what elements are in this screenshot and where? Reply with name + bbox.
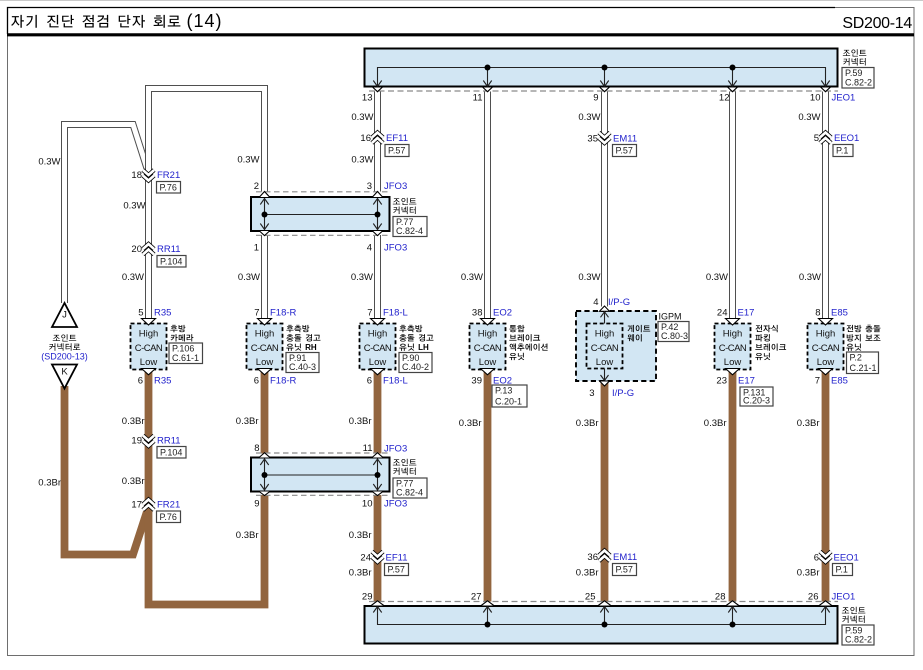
svg-text:FR21: FR21 <box>157 170 180 181</box>
EO2 description 통합 브레이크 액추에이션 유닛 <box>509 325 547 360</box>
svg-text:K: K <box>61 367 68 378</box>
svg-text:P.2: P.2 <box>850 353 862 363</box>
svg-text:0.3W: 0.3W <box>123 201 145 212</box>
svg-text:7: 7 <box>254 308 259 319</box>
svg-text:6: 6 <box>814 553 819 564</box>
svg-text:C.82-4: C.82-4 <box>396 226 423 236</box>
svg-text:0.3W: 0.3W <box>122 272 144 283</box>
F18-L ref box P.90 C.40-2 <box>399 353 432 373</box>
junction triangle J (to joint connector SD200-13) <box>52 303 77 327</box>
svg-text:0.3Br: 0.3Br <box>349 568 372 579</box>
svg-text:0.3Br: 0.3Br <box>122 416 145 427</box>
svg-text:(SD200-13): (SD200-13) <box>41 352 88 362</box>
svg-text:25: 25 <box>585 592 596 603</box>
svg-text:E85: E85 <box>831 376 848 387</box>
svg-text:IGPM: IGPM <box>659 312 682 322</box>
E85 description 전방 충돌 방지 보조 유닛 <box>846 325 880 351</box>
bottom bar label 조인트 커넥터 <box>842 607 865 623</box>
svg-text:R35: R35 <box>154 376 171 387</box>
svg-text:J: J <box>62 310 67 321</box>
svg-text:Low: Low <box>479 357 497 368</box>
svg-text:6: 6 <box>138 376 143 387</box>
title text 자기 진단 점검 단자 회로 (14) <box>11 11 222 31</box>
svg-text:RR11: RR11 <box>157 436 181 447</box>
svg-text:E17: E17 <box>738 376 755 387</box>
JF03 bottom dashed boundaries <box>256 452 390 454</box>
svg-text:20: 20 <box>131 244 142 255</box>
top bar ref box P.59 C.82-2 <box>842 68 874 89</box>
inline connector 17 FR21 P.76 <box>143 500 154 511</box>
svg-text:7: 7 <box>367 308 372 319</box>
connector I/P-G inside IGPM <box>587 324 623 369</box>
svg-text:C.20-1: C.20-1 <box>495 397 522 407</box>
svg-text:C-CAN: C-CAN <box>812 343 840 354</box>
svg-text:C-CAN: C-CAN <box>474 343 502 354</box>
svg-text:C.20-3: C.20-3 <box>743 396 770 406</box>
svg-text:5: 5 <box>814 133 819 144</box>
I/P-G wire arrows into IGPM <box>600 306 610 311</box>
svg-text:EF11: EF11 <box>386 133 408 144</box>
svg-text:9: 9 <box>254 499 259 510</box>
connector E17 (electronic parking brake unit) <box>715 324 751 370</box>
IGPM gateway module box <box>576 311 656 381</box>
svg-text:C.82-4: C.82-4 <box>396 488 423 498</box>
svg-text:24: 24 <box>717 308 728 319</box>
svg-text:P.104: P.104 <box>160 256 182 266</box>
svg-text:27: 27 <box>471 592 482 603</box>
svg-text:P.57: P.57 <box>388 565 405 575</box>
svg-text:29: 29 <box>362 592 373 603</box>
IGPM description 게이트 웨이 <box>628 325 651 342</box>
svg-text:0.3Br: 0.3Br <box>797 418 820 429</box>
svg-text:19: 19 <box>131 436 142 447</box>
svg-text:C.21-1: C.21-1 <box>850 363 877 373</box>
svg-text:P.57: P.57 <box>388 146 405 156</box>
svg-text:F18-L: F18-L <box>383 376 408 387</box>
svg-text:EEO1: EEO1 <box>834 133 859 144</box>
svg-text:0.3W: 0.3W <box>237 155 259 166</box>
svg-text:Low: Low <box>817 357 835 368</box>
inline connector 16 EF11 P.57 <box>372 133 383 144</box>
svg-text:0.3Br: 0.3Br <box>797 568 820 579</box>
svg-text:3: 3 <box>589 388 594 399</box>
svg-text:F18-R: F18-R <box>270 308 297 319</box>
svg-text:F18-R: F18-R <box>270 376 297 387</box>
svg-text:P.76: P.76 <box>160 512 177 522</box>
svg-text:0.3Br: 0.3Br <box>38 478 61 489</box>
svg-text:0.3Br: 0.3Br <box>349 530 372 541</box>
JF03 bottom wire arrows x=377.5 <box>372 453 384 458</box>
wire end arrow at bottom bar x=487.5 <box>481 601 495 606</box>
svg-text:C-CAN: C-CAN <box>251 343 279 354</box>
svg-text:0.3W: 0.3W <box>38 157 60 168</box>
svg-text:JFO3: JFO3 <box>384 444 407 455</box>
joint connector bar (top, P.59 C.82-2) <box>365 49 838 87</box>
wire: EO2 column c4 <box>484 92 491 319</box>
svg-text:High: High <box>255 329 275 340</box>
F18-L wire end arrows <box>371 319 385 326</box>
svg-text:0.3W: 0.3W <box>798 112 820 123</box>
svg-text:(14): (14) <box>187 11 223 31</box>
svg-text:High: High <box>723 329 743 340</box>
svg-text:0.3Br: 0.3Br <box>236 530 259 541</box>
svg-text:8: 8 <box>815 308 820 319</box>
svg-text:P.106: P.106 <box>172 344 194 354</box>
svg-text:0.3W: 0.3W <box>461 272 483 283</box>
F18-R wire end arrows <box>258 319 272 326</box>
svg-text:Low: Low <box>256 357 274 368</box>
wire: outer loop FR21 top to JF03 pin2 <box>149 89 265 192</box>
title box top/left black edges <box>8 8 836 35</box>
svg-text:F18-L: F18-L <box>383 308 408 319</box>
connector EO2 (integrated brake actuation unit) <box>470 324 506 370</box>
svg-text:Low: Low <box>596 357 614 368</box>
svg-text:0.3Br: 0.3Br <box>576 418 599 429</box>
svg-text:C.40-2: C.40-2 <box>402 362 429 372</box>
connector R35 (rear camera) <box>131 324 167 370</box>
connector E85 (forward collision avoidance assist unit) <box>808 324 844 370</box>
svg-text:JEO1: JEO1 <box>832 93 856 104</box>
svg-text:E17: E17 <box>738 308 755 319</box>
svg-text:18: 18 <box>131 170 142 181</box>
svg-text:2: 2 <box>254 181 259 192</box>
inline connector 36 EM11 P.57 <box>599 551 610 562</box>
svg-text:I/P-G: I/P-G <box>612 388 634 399</box>
svg-text:10: 10 <box>810 93 821 104</box>
svg-text:3: 3 <box>367 181 372 192</box>
svg-text:C-CAN: C-CAN <box>135 343 163 354</box>
svg-text:High: High <box>816 329 836 340</box>
bottom bar connector dashed boundary <box>369 601 838 603</box>
svg-text:EEO1: EEO1 <box>834 553 859 564</box>
top bar connector dashed boundary <box>369 90 838 92</box>
joint connector JF03 (top, P.77 C.82-4) <box>251 197 390 231</box>
brown wire: F18-R to JF03 pin8 <box>261 369 269 454</box>
svg-text:24: 24 <box>360 553 371 564</box>
brown wire: F18-L to JF03 pin11 <box>374 369 382 454</box>
thick divider line <box>7 33 914 36</box>
svg-text:P.1: P.1 <box>836 565 848 575</box>
svg-text:35: 35 <box>587 134 598 145</box>
wire end arrow at top bar x=825.5 <box>821 87 831 92</box>
svg-text:C.61-1: C.61-1 <box>172 353 199 363</box>
svg-text:P.57: P.57 <box>616 146 633 156</box>
svg-text:P.59: P.59 <box>845 68 862 78</box>
bottom bar ref box P.59 C.82-2 <box>842 625 874 645</box>
svg-text:0.3W: 0.3W <box>706 272 728 283</box>
JF03 top wire arrows x=377.5 <box>372 192 383 198</box>
wire end arrow at top bar x=604.5 <box>600 87 610 92</box>
EO2 ref box P.13 C.20-1 <box>492 385 527 407</box>
svg-text:R35: R35 <box>154 308 171 319</box>
inline connector 18 FR21 P.76 <box>143 170 154 181</box>
svg-text:38: 38 <box>472 308 483 319</box>
svg-text:12: 12 <box>719 93 730 104</box>
svg-text:0.3Br: 0.3Br <box>349 416 372 427</box>
brown wire: I/P-G to bottom bar pin25 <box>601 381 609 602</box>
brown wire: EO2 to bottom bar pin27 <box>484 369 492 602</box>
svg-text:11: 11 <box>363 443 373 454</box>
wire: E85 column c7 <box>822 92 829 319</box>
svg-text:5: 5 <box>138 308 143 319</box>
wire end arrow at top bar x=732.5 <box>728 87 738 92</box>
R35 ref box P.106 C.61-1 <box>169 343 203 364</box>
JF03 top dashed boundaries <box>256 191 390 193</box>
svg-text:RR11: RR11 <box>157 244 181 255</box>
svg-text:23: 23 <box>716 376 727 387</box>
wire end arrow at bottom bar x=377.5 <box>371 601 385 606</box>
svg-text:EO2: EO2 <box>493 308 512 319</box>
IGPM ref box P.42 C.80-3 <box>658 322 689 342</box>
E17 wire end arrows <box>726 319 740 326</box>
svg-text:26: 26 <box>808 592 819 603</box>
inline connector 35 EM11 P.57 <box>599 133 610 144</box>
wire gauge labels 0.3W / 0.3Br <box>38 112 821 579</box>
svg-text:C.80-3: C.80-3 <box>661 331 688 341</box>
wire end arrow at bottom bar x=732.5 <box>726 601 740 606</box>
svg-text:JEO1: JEO1 <box>832 592 856 603</box>
inline connector 5 EE01 P.1 <box>820 133 831 144</box>
inline connector 24 EF11 P.57 <box>372 552 383 563</box>
svg-text:EM11: EM11 <box>613 134 637 145</box>
svg-text:28: 28 <box>715 592 726 603</box>
svg-text:C-CAN: C-CAN <box>591 343 619 354</box>
svg-text:SD200-14: SD200-14 <box>842 15 912 32</box>
wire end arrow at top bar x=377.5 <box>373 87 383 92</box>
R35 description 후방 카메라 <box>170 325 193 342</box>
svg-text:0.3Br: 0.3Br <box>122 476 145 487</box>
F18-R ref box P.91 C.40-3 <box>286 353 319 373</box>
svg-text:I/P-G: I/P-G <box>608 297 630 308</box>
inline connector 20 RR11 P.104 <box>143 244 154 255</box>
svg-text:0.3Br: 0.3Br <box>236 416 259 427</box>
wire: E17 column c6 <box>729 92 736 319</box>
svg-text:High: High <box>478 329 498 340</box>
E17 ref box P.131 C.20-3 <box>740 387 773 406</box>
svg-text:Low: Low <box>369 357 387 368</box>
svg-text:LH: LH <box>418 343 429 352</box>
F18-L description 후측방 충돌 경고 유닛 LH <box>399 325 433 352</box>
joint connector JF03 (bottom, P.77 C.82-4) <box>251 458 390 492</box>
svg-text:RH: RH <box>305 343 317 352</box>
E85 ref box P.2 C.21-1 <box>847 352 879 374</box>
R35 wire end arrows <box>142 319 156 326</box>
svg-text:C.40-3: C.40-3 <box>289 362 316 372</box>
wire end arrow at top bar x=487.5 <box>483 87 493 92</box>
brown wire: F18-L JF03 pin10 to bottom bar pin29 <box>374 495 382 602</box>
svg-text:13: 13 <box>362 93 373 104</box>
svg-text:C.82-2: C.82-2 <box>845 635 872 645</box>
svg-text:0.3Br: 0.3Br <box>704 418 727 429</box>
svg-text:6: 6 <box>367 376 372 387</box>
JF03 bottom wire arrows x=264.5 <box>259 453 271 458</box>
svg-text:6: 6 <box>254 376 259 387</box>
svg-text:P.76: P.76 <box>160 182 177 192</box>
brown wire: E85 to bottom bar pin26 <box>822 369 830 602</box>
svg-text:Low: Low <box>724 357 742 368</box>
svg-text:EF11: EF11 <box>386 553 408 564</box>
svg-text:EM11: EM11 <box>613 552 637 563</box>
svg-text:4: 4 <box>593 297 598 308</box>
svg-text:0.3W: 0.3W <box>578 112 600 123</box>
svg-text:8: 8 <box>254 443 259 454</box>
svg-text:E85: E85 <box>831 308 848 319</box>
F18-R description 후측방 충돌 경고 유닛 RH <box>286 325 320 352</box>
svg-text:39: 39 <box>471 376 482 387</box>
svg-text:P.1: P.1 <box>836 146 848 156</box>
label 조인트 커넥터로 (SD200-13) <box>41 334 88 361</box>
inline connector 6 EE01 P.1 <box>820 552 831 563</box>
svg-text:Low: Low <box>140 357 158 368</box>
top bar label 조인트 커넥터 <box>843 49 866 65</box>
wire: F18-L column c3 top bar to JF03 <box>374 92 381 192</box>
wire end arrow at bottom bar x=604.5 <box>598 601 612 606</box>
JF03 bottom ref box P.77 C.82-4 <box>393 478 427 498</box>
connector F18-R (rear side collision warning RH) <box>247 324 283 370</box>
svg-text:1: 1 <box>254 243 259 254</box>
svg-text:17: 17 <box>131 500 142 511</box>
joint connector bar (bottom, P.59 C.82-2) <box>365 606 838 644</box>
svg-text:P.104: P.104 <box>160 447 182 457</box>
svg-text:High: High <box>595 329 615 340</box>
EO2 wire end arrows <box>481 319 495 326</box>
svg-text:High: High <box>368 329 388 340</box>
svg-text:0.3Br: 0.3Br <box>576 568 599 579</box>
E85 wire end arrows <box>819 319 833 326</box>
page top grey rule <box>0 0 923 2</box>
svg-text:C-CAN: C-CAN <box>719 343 747 354</box>
svg-text:9: 9 <box>593 93 598 104</box>
svg-text:JFO3: JFO3 <box>384 243 407 254</box>
svg-text:7: 7 <box>815 376 820 387</box>
svg-text:0.3W: 0.3W <box>351 155 373 166</box>
svg-text:0.3Br: 0.3Br <box>459 418 482 429</box>
svg-text:0.3W: 0.3W <box>578 272 600 283</box>
svg-text:P.13: P.13 <box>495 386 512 396</box>
connector F18-L (rear side collision warning LH) <box>360 324 396 370</box>
wire: inner loop from J up and over to FR21 <box>65 125 148 304</box>
svg-text:11: 11 <box>473 93 483 104</box>
inline connector 19 RR11 P.104 <box>143 436 154 447</box>
junction triangle K (from joint connector) <box>52 365 77 389</box>
JF03 top ref box P.77 C.82-4 <box>393 217 427 237</box>
svg-text:10: 10 <box>362 499 373 510</box>
E17 description 전자식 파킹 브레이크 유닛 <box>755 325 786 360</box>
wire: I/P-G column c5 <box>601 92 608 307</box>
wire: F18-L column c3 JF03 to connector <box>374 235 381 319</box>
svg-text:0.3W: 0.3W <box>799 272 821 283</box>
wire: F18-R column c2 below JF03 <box>261 235 268 319</box>
brown wire: E17 to bottom bar pin28 <box>729 369 737 602</box>
wire: R35 column c1 <box>145 175 152 319</box>
svg-text:4: 4 <box>367 243 372 254</box>
wire end arrow at bottom bar x=825.5 <box>819 601 833 606</box>
svg-text:C.82-2: C.82-2 <box>845 78 872 88</box>
svg-text:JFO3: JFO3 <box>384 499 407 510</box>
svg-text:0.3W: 0.3W <box>351 272 373 283</box>
svg-text:P.57: P.57 <box>616 565 633 575</box>
JF03 top label 조인트 커넥터 <box>393 198 416 214</box>
svg-text:36: 36 <box>587 552 598 563</box>
svg-text:16: 16 <box>360 133 371 144</box>
svg-text:0.3W: 0.3W <box>351 112 373 123</box>
svg-text:JFO3: JFO3 <box>384 181 407 192</box>
svg-text:FR21: FR21 <box>157 500 180 511</box>
svg-text:High: High <box>139 329 159 340</box>
brown wire: R35 down, along bottom, up to JF03 pin9 <box>149 369 265 605</box>
JF03 top wire arrows x=264.5 <box>259 192 270 198</box>
svg-text:0.3W: 0.3W <box>238 272 260 283</box>
svg-text:C-CAN: C-CAN <box>364 343 392 354</box>
brown wire: K loop to FR21 pin17 <box>65 386 148 555</box>
JF03 bottom label 조인트 커넥터 <box>393 459 416 475</box>
